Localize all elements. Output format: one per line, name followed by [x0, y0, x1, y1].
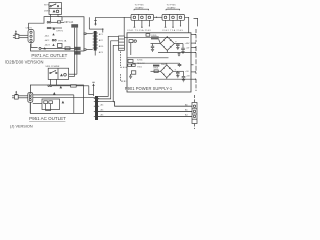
bridge1 left wire: [151, 43, 161, 45]
+9V labels: [185, 71, 190, 77]
svg-text:F901 T3.15A 250V: F901 T3.15A 250V: [128, 29, 152, 32]
svg-text:P951 AC OUTLET: P951 AC OUTLET: [29, 116, 66, 121]
svg-text:D902: D902: [161, 64, 167, 66]
edge stubs: [191, 34, 196, 80]
outlet connector CN971: [28, 30, 34, 43]
wire connector to fuse box: [29, 17, 62, 30]
vertical wire AC2: [98, 41, 119, 99]
polarity arrow above plug: [15, 30, 18, 34]
svg-text:(J) VERSION: (J) VERSION: [10, 124, 33, 128]
svg-text:+: +: [175, 40, 177, 43]
svg-text:DS971: DS971: [44, 11, 51, 13]
cap on rail2: [178, 63, 182, 67]
capacitor C916: [182, 71, 186, 79]
wire pair to lower outlet: [69, 28, 77, 77]
page edge dashed line: [195, 29, 197, 91]
bridge rectifier D902: [161, 65, 174, 78]
capacitor C911: [181, 44, 185, 52]
svg-text:P901 POWER SUPPLY-1: P901 POWER SUPPLY-1: [125, 86, 173, 91]
svg-text:IC901: IC901: [137, 60, 143, 62]
thermistor TH901: [151, 36, 160, 43]
svg-text:AC3: AC3: [99, 51, 104, 54]
wire between blocks: [154, 17, 163, 18]
bus labels: [101, 103, 189, 116]
power connector column P911: [119, 36, 125, 50]
svg-text:F971 2A: F971 2A: [65, 21, 74, 24]
polarity row: [47, 27, 62, 30]
svg-text:S971: S971: [44, 5, 50, 7]
block2 pins down: [165, 20, 181, 27]
relay sub box: [42, 99, 60, 111]
chassis dashed line: [120, 52, 126, 82]
block2 right wire: [185, 17, 189, 33]
block1 pins down: [134, 20, 150, 27]
capacitor C915: [176, 71, 180, 75]
svg-text:+6V: +6V: [186, 76, 190, 78]
wire CN951 down: [29, 102, 31, 113]
outlet connector CN951: [28, 93, 33, 103]
capacitor C910: [176, 44, 180, 48]
svg-text:TO PT5X: TO PT5X: [135, 5, 145, 7]
wire row A: [33, 92, 74, 113]
outlet P951 outline box: [30, 85, 83, 113]
svg-text:AC: AC: [101, 114, 104, 117]
stub wires to connector: [84, 33, 93, 50]
lower fuse row: [48, 85, 94, 95]
bridge2 right wire: [173, 70, 183, 72]
bridge2 bottom rail: [155, 78, 191, 80]
ground under C910: [176, 47, 179, 49]
cap on rail1: [178, 53, 181, 57]
outlet P971 outline box: [31, 17, 84, 51]
line filter component: [71, 24, 78, 27]
ground sym regulator: [129, 74, 132, 78]
bus line 3: [98, 115, 192, 117]
svg-text:-AC2: -AC2: [45, 39, 51, 42]
pin labels: [99, 33, 104, 54]
bridge1 bottom rail: [158, 50, 191, 52]
pin labels AC: [45, 35, 51, 47]
bridge rectifier D901: [160, 37, 174, 51]
page edge stub: [194, 18, 198, 26]
wire from S971 to fuse row: [51, 14, 62, 21]
polarity triangles: [52, 33, 56, 46]
transformer label 2: [167, 5, 177, 10]
polarity arrow above plug 2: [15, 91, 18, 95]
AC relay block 1: [131, 14, 154, 20]
svg-text:AC: AC: [101, 103, 104, 106]
wire connector bottom row: [31, 42, 38, 47]
bridge1 right wire: [174, 43, 183, 45]
ground under C916: [182, 80, 185, 82]
regulator fuse: [128, 60, 136, 75]
capacitor C906: [151, 44, 154, 50]
svg-text:CN971: CN971: [26, 28, 33, 30]
transformer label 1: [135, 5, 145, 10]
varistor: [58, 44, 63, 48]
ground under C915: [176, 76, 179, 78]
fuse F971 row: [47, 21, 64, 23]
vertical wire ACG: [98, 45, 119, 101]
switch/lamp box S971: [49, 3, 62, 15]
inner rail 1: [128, 57, 169, 59]
svg-text:+43V: +43V: [185, 43, 191, 45]
bus line 2: [98, 110, 192, 112]
svg-text:F902 T2A 250V: F902 T2A 250V: [163, 29, 184, 32]
brace 2: [166, 9, 180, 10]
switch/lamp box S951: [48, 68, 68, 79]
bridge2 left wire: [151, 70, 161, 73]
power supply box P901: [127, 33, 191, 92]
middle connector column: [93, 31, 98, 56]
wire row B: [33, 97, 95, 103]
svg-text:+: +: [175, 68, 177, 71]
relay box: [146, 34, 150, 37]
polarity mark lower: [92, 82, 94, 96]
regulator labels: [137, 60, 145, 69]
wires from S951: [50, 79, 56, 85]
svg-text:/D2B/D30 VERSION: /D2B/D30 VERSION: [5, 60, 44, 65]
lower connector column: [94, 96, 99, 120]
transformer core blob: [153, 65, 159, 67]
svg-text:-AC1: -AC1: [45, 35, 51, 38]
ground under C911: [181, 51, 184, 53]
AC plug P971: [13, 34, 28, 38]
fuse F901: [129, 40, 136, 55]
svg-text:AC: AC: [101, 109, 104, 112]
svg-text:R901: R901: [154, 68, 160, 70]
svg-text:DP971: DP971: [57, 30, 64, 32]
brace 1: [134, 9, 149, 10]
edge connector bottom right: [192, 103, 197, 124]
svg-text:TO PT5X: TO PT5X: [167, 5, 177, 7]
label S971: [44, 5, 51, 13]
wire mid feed: [89, 17, 103, 32]
AC relay block 2: [162, 14, 185, 20]
wire top feed: [94, 17, 131, 25]
label DP971: [57, 30, 67, 42]
bus line 1: [113, 102, 192, 107]
edge dashed below connector: [194, 124, 196, 130]
inner rail 2 / bridge2 feed: [132, 63, 179, 65]
ground under C906: [151, 49, 154, 51]
svg-text:+9V: +9V: [185, 71, 189, 73]
wire to relay block 1: [123, 17, 125, 36]
AC plug P951: [12, 95, 28, 99]
switch row in outlet box: [39, 47, 74, 50]
svg-text:ACG: ACG: [99, 45, 104, 48]
svg-text:-ACG: -ACG: [45, 44, 51, 47]
vertical wire AC1: [98, 36, 119, 96]
svg-text:AC2: AC2: [99, 39, 104, 42]
svg-text:AC1: AC1: [99, 33, 104, 36]
+B labels: [185, 43, 191, 49]
edge dashed above connector: [194, 95, 196, 103]
svg-text:P971 AC OUTLET: P971 AC OUTLET: [31, 53, 67, 58]
svg-text:+5V: +5V: [186, 47, 190, 49]
svg-text:D905: D905: [152, 35, 158, 37]
svg-text:F971 2A: F971 2A: [58, 39, 66, 42]
svg-text:REG 9V: REG 9V: [137, 63, 145, 65]
thermostat blobs: [75, 47, 81, 55]
svg-text:T901: T901: [137, 67, 143, 69]
main AC wire in box: [124, 37, 189, 39]
wire CN951 right: [33, 103, 42, 105]
